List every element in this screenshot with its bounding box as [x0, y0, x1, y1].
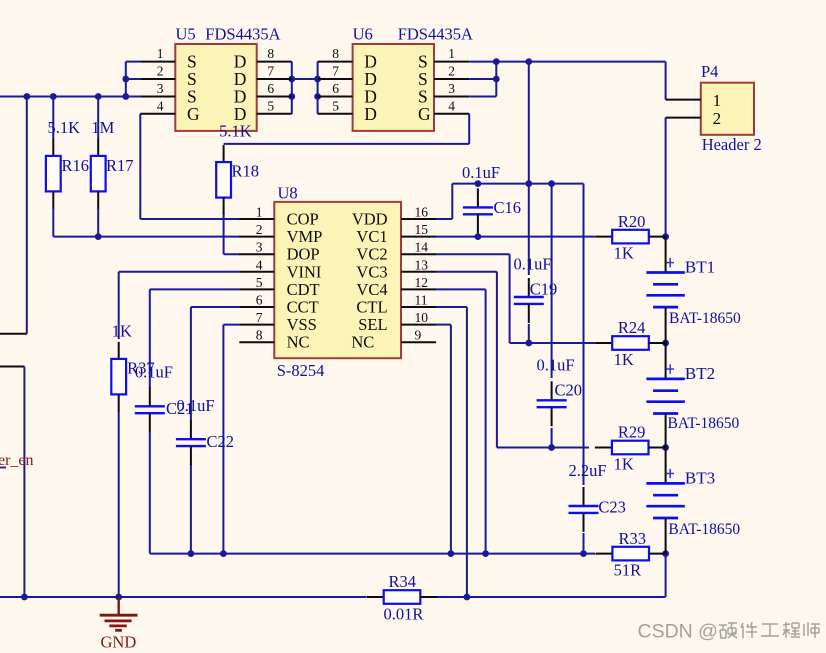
- R18 value 5.1K: [219, 122, 252, 141]
- wire bridge U5 drains to U6 drains: [292, 78, 318, 80]
- C21 designator: [166, 399, 194, 418]
- svg-text:G: G: [187, 104, 200, 124]
- svg-text:CCT: CCT: [287, 298, 319, 317]
- junction bottom rail/CTL wire: [464, 594, 471, 601]
- U6 pin 1: [418, 46, 469, 72]
- junction bottom rail/GND: [115, 594, 122, 601]
- svg-text:2: 2: [256, 222, 263, 237]
- svg-text:C20: C20: [555, 380, 583, 399]
- BT1 comment BAT-18650: [669, 310, 741, 327]
- wire U5 source bracket (pins 1-3 tie): [126, 62, 141, 97]
- resistor R20 body: [595, 230, 666, 244]
- svg-text:BAT-18650: BAT-18650: [668, 415, 740, 432]
- wire R17 bottom down to VMP row: [97, 208, 99, 237]
- svg-text:1K: 1K: [112, 322, 132, 341]
- svg-text:FDS4435A: FDS4435A: [398, 25, 473, 44]
- R24 designator: [618, 318, 646, 337]
- wire U8 pin5 CDT to C21: [150, 289, 240, 388]
- resistor R29 body: [595, 441, 666, 455]
- wire top-left bus net S1 (pack+ to U5 sources): [0, 96, 140, 98]
- U8 pin 14 VC2: [356, 240, 436, 264]
- wire U5 gate to U8 pin1 COP: [140, 114, 240, 219]
- svg-text:R33: R33: [619, 529, 647, 548]
- junction R24 right/BT2+ column: [662, 340, 669, 347]
- U8 comment S-8254: [277, 361, 325, 380]
- U8 pin 4 VINI: [239, 257, 321, 281]
- U5 designator: [176, 25, 196, 44]
- resistor R17 body: [91, 139, 106, 209]
- U8 pin 2 VMP: [239, 222, 322, 246]
- connector P4 Header 2 body: [701, 83, 754, 135]
- U5 pin 7: [234, 64, 292, 90]
- junction U6 source bracket pin2: [493, 76, 500, 83]
- svg-text:U5: U5: [176, 25, 196, 44]
- junction VC1 row/C16 bottom: [475, 233, 482, 240]
- junction rail/C20 column: [548, 180, 555, 187]
- U5 pin 4: [140, 98, 200, 124]
- svg-text:G: G: [418, 104, 431, 124]
- U8 designator: [278, 184, 298, 203]
- svg-text:VSS: VSS: [287, 315, 317, 334]
- svg-text:7: 7: [267, 64, 274, 79]
- junction U5 pin2 bracket: [122, 76, 129, 83]
- svg-text:CSDN @: CSDN @: [638, 621, 718, 643]
- C22 designator: [207, 432, 235, 451]
- svg-text:VC1: VC1: [356, 227, 387, 246]
- P4 comment Header 2: [702, 135, 762, 154]
- svg-text:BAT-18650: BAT-18650: [669, 310, 741, 327]
- capacitor C23 body: [569, 487, 599, 532]
- P4 pin 1: [666, 91, 722, 110]
- U8 pin 12 VC4: [356, 275, 436, 299]
- svg-text:10: 10: [415, 310, 429, 325]
- svg-text:BT3: BT3: [685, 468, 715, 487]
- svg-text:P4: P4: [701, 62, 718, 81]
- BT3 comment BAT-18650: [668, 521, 740, 538]
- svg-text:6: 6: [332, 81, 339, 96]
- svg-text:FDS4435A: FDS4435A: [205, 25, 280, 44]
- GND label: [101, 633, 137, 652]
- svg-text:1: 1: [448, 46, 455, 61]
- svg-text:0.1uF: 0.1uF: [514, 255, 552, 274]
- R29 value 1K: [614, 455, 634, 474]
- svg-text:1: 1: [713, 91, 722, 110]
- svg-text:1K: 1K: [614, 455, 634, 474]
- watermark glyph shi (teacher): [804, 622, 820, 638]
- svg-text:11: 11: [415, 293, 428, 308]
- svg-text:BAT-18650: BAT-18650: [668, 521, 740, 538]
- R37 value 1K: [112, 322, 132, 341]
- svg-text:6: 6: [267, 81, 274, 96]
- wire C23 column (rail to R33 row): [583, 184, 585, 554]
- C16 designator: [494, 198, 522, 217]
- R16 designator: [62, 156, 90, 175]
- svg-text:SEL: SEL: [358, 315, 387, 334]
- wire U8 pin11 CTL down to bottom rail: [436, 307, 467, 597]
- svg-text:DOP: DOP: [287, 245, 320, 264]
- junction bus/left-vertical: [23, 93, 30, 100]
- svg-text:C19: C19: [530, 280, 558, 299]
- svg-text:7: 7: [332, 64, 339, 79]
- wire U8 pin12 VC4 down to R33 row: [436, 289, 486, 553]
- svg-text:2: 2: [448, 64, 455, 79]
- wire bottom ground rail: [0, 596, 666, 598]
- capacitor C22 body: [176, 420, 206, 465]
- U5 pin 2: [140, 64, 196, 90]
- R24 value 1K: [614, 350, 634, 369]
- wire U8 pin15 VC1 to R20 / battery BT1+: [436, 236, 595, 238]
- wire R33 row (VC4/pack- sense): [150, 553, 595, 555]
- resistor R33 body: [595, 547, 666, 561]
- U8 pin 1 COP: [239, 205, 318, 229]
- svg-text:R18: R18: [232, 162, 260, 181]
- svg-text:8: 8: [332, 46, 339, 61]
- C23 value 2.2uF: [569, 461, 607, 480]
- svg-text:1M: 1M: [91, 118, 114, 137]
- svg-text:GND: GND: [101, 633, 137, 652]
- svg-text:CTL: CTL: [356, 298, 387, 317]
- U5 pin 3: [140, 81, 196, 107]
- R17 value 1M: [91, 118, 114, 137]
- wire C22 bottom to R33 row: [190, 464, 192, 554]
- capacitor C19 body: [514, 278, 544, 323]
- C20 designator: [555, 380, 583, 399]
- svg-text:1: 1: [157, 46, 164, 61]
- U6 pin 4: [418, 98, 469, 124]
- svg-text:U8: U8: [278, 184, 298, 203]
- wire U5 drain bracket (pins 5-8 tie): [291, 62, 293, 114]
- junction U6 pin7 bracket: [314, 76, 321, 83]
- wire R37 bottom to bottom rail: [118, 411, 120, 597]
- resistor R34 body: [367, 590, 438, 604]
- U6 pin 2: [418, 64, 469, 90]
- svg-text:7: 7: [256, 310, 263, 325]
- junction U6 source row/bracket top: [493, 58, 500, 65]
- svg-text:5.1K: 5.1K: [219, 122, 252, 141]
- wire U6 gate to R18 top: [224, 114, 470, 144]
- junction R33 right/BT3- column: [662, 550, 669, 557]
- svg-text:0.01R: 0.01R: [384, 605, 424, 624]
- mosfet U6 FDS4435A body: [353, 44, 434, 131]
- junction U6 pin6 bracket: [314, 93, 321, 100]
- svg-text:NC: NC: [287, 333, 310, 352]
- svg-text:5: 5: [332, 98, 339, 113]
- svg-text:12: 12: [415, 275, 429, 290]
- junction rail/C16: [475, 180, 482, 187]
- junction bus/R17: [95, 93, 102, 100]
- wire decoupling rail 0.1uF: [452, 183, 583, 185]
- svg-text:9: 9: [415, 328, 422, 343]
- U6 designator: [353, 25, 373, 44]
- svg-text:S-8254: S-8254: [277, 361, 325, 380]
- svg-text:2: 2: [157, 64, 164, 79]
- watermark glyph jian (piece): [741, 622, 757, 638]
- svg-text:16: 16: [415, 205, 429, 220]
- junction R33 row/VSS: [220, 550, 227, 557]
- U8 pin 13 VC3: [356, 257, 436, 281]
- wire BT3- down to bottom rail corner: [665, 554, 667, 597]
- U6 comment FDS4435A: [398, 25, 473, 44]
- watermark CSDN: [638, 621, 718, 643]
- svg-text:COP: COP: [287, 210, 319, 229]
- svg-text:R24: R24: [618, 318, 646, 337]
- junction R20 right/BT1+ column: [662, 233, 669, 240]
- R34 designator: [389, 572, 417, 591]
- svg-text:VMP: VMP: [287, 227, 323, 246]
- svg-text:8: 8: [267, 46, 274, 61]
- svg-text:R20: R20: [618, 212, 646, 231]
- U8 pin 9 NC: [351, 328, 436, 352]
- wire C21 bottom to R33 row: [149, 432, 151, 554]
- ic U8 S-8254 body: [274, 202, 401, 358]
- P4 pin 2: [666, 109, 722, 128]
- watermark glyph gong (work): [761, 624, 779, 636]
- wire bus down to R16 top: [52, 97, 54, 140]
- wire U6 source bracket: [469, 62, 496, 97]
- U8 pin 11 CTL: [356, 293, 436, 317]
- BT3 designator: [685, 468, 715, 487]
- junction bus/U5 source bracket: [122, 93, 129, 100]
- R33 designator: [619, 529, 647, 548]
- svg-text:15: 15: [415, 222, 429, 237]
- battery BT3 body: [646, 448, 684, 554]
- junction R33 row/C22: [188, 550, 195, 557]
- U6 pin 8: [318, 46, 377, 72]
- svg-text:BT2: BT2: [685, 364, 715, 383]
- svg-text:6: 6: [256, 293, 263, 308]
- svg-text:1K: 1K: [614, 350, 634, 369]
- R29 designator: [618, 423, 646, 442]
- C22 value 0.1uF: [177, 396, 215, 415]
- svg-text:CDT: CDT: [287, 280, 320, 299]
- R18 designator: [232, 162, 260, 181]
- wire U8 pin13 VC3 to R29 row: [436, 272, 589, 448]
- U8 pin 16 VDD: [352, 205, 436, 229]
- wire U8 pin10 SEL down to R33 row: [436, 325, 451, 554]
- mosfet U5 FDS4435A body: [175, 44, 256, 131]
- svg-text:5.1K: 5.1K: [48, 118, 81, 137]
- svg-text:VC2: VC2: [356, 245, 387, 264]
- wire U6 source row to P4 pin 1 (pack+ out): [469, 62, 665, 100]
- svg-text:1K: 1K: [614, 244, 634, 263]
- U8 pin 6 CCT: [239, 293, 318, 317]
- C19 designator: [530, 280, 558, 299]
- junction R33 row/pin10: [448, 550, 455, 557]
- svg-text:0.1uF: 0.1uF: [177, 396, 215, 415]
- capacitor C16 body: [463, 188, 493, 233]
- svg-text:R34: R34: [389, 572, 417, 591]
- svg-text:0.1uF: 0.1uF: [537, 356, 575, 375]
- svg-text:3: 3: [256, 240, 263, 255]
- svg-text:4: 4: [448, 98, 455, 113]
- resistor R37 body: [111, 342, 126, 412]
- svg-text:3: 3: [157, 81, 164, 96]
- U6 pin 3: [418, 81, 469, 107]
- svg-text:C16: C16: [494, 198, 522, 217]
- resistor R24 body: [595, 336, 666, 350]
- C20 value 0.1uF: [537, 356, 575, 375]
- junction R17 bottom: [95, 233, 102, 240]
- svg-text:VC4: VC4: [356, 280, 387, 299]
- BT2 comment BAT-18650: [668, 415, 740, 432]
- svg-text:C23: C23: [598, 497, 626, 516]
- wire U8 pin7 VSS down to R33 row: [223, 325, 239, 554]
- svg-text:R17: R17: [106, 156, 134, 175]
- svg-text:NC: NC: [351, 333, 374, 352]
- R37 designator: [127, 359, 155, 378]
- wire C20 column (rail to VC3 row): [551, 184, 553, 448]
- wire left vertical from bus down to off-page pin: [0, 97, 27, 334]
- junction bottom rail/left off-page wire: [21, 594, 28, 601]
- P4 designator: [701, 62, 718, 81]
- junction rail/C19 column: [525, 180, 532, 187]
- junction VC2 row/C19 bottom: [525, 340, 532, 347]
- U5 pin 1: [140, 46, 196, 72]
- wire off-page pin to bottom rail (left): [0, 367, 24, 598]
- svg-text:VINI: VINI: [287, 262, 322, 281]
- R20 designator: [618, 212, 646, 231]
- junction VC3 row/C20 bottom: [548, 444, 555, 451]
- svg-text:R16: R16: [62, 156, 90, 175]
- BT2 designator: [685, 364, 715, 383]
- svg-text:51R: 51R: [614, 561, 642, 580]
- U6 pin 7: [318, 64, 377, 90]
- battery BT1 body: [646, 237, 684, 343]
- wire U8 pin4 VINI down to R37: [119, 272, 240, 339]
- watermark glyph cheng (course): [783, 622, 800, 638]
- svg-text:4: 4: [157, 98, 164, 113]
- wire R18 bottom to U8 pin3 DOP: [224, 213, 240, 254]
- svg-text:4: 4: [256, 257, 263, 272]
- svg-text:2.2uF: 2.2uF: [569, 461, 607, 480]
- svg-text:BT1: BT1: [685, 258, 715, 277]
- svg-text:U6: U6: [353, 25, 373, 44]
- svg-text:R29: R29: [618, 423, 646, 442]
- U8 pin 7 VSS: [239, 310, 317, 334]
- U5 pin 5: [234, 98, 292, 124]
- svg-text:C22: C22: [207, 432, 235, 451]
- net label er_en (Power_en, clipped): [0, 452, 34, 469]
- resistor R16 body: [46, 139, 61, 209]
- junction U5 pin7 bracket: [288, 76, 295, 83]
- svg-text:2: 2: [713, 109, 722, 128]
- junction R33 row/C23: [580, 550, 587, 557]
- junction top row / C19 column: [525, 58, 532, 65]
- U6 pin 6: [318, 81, 377, 107]
- ground symbol GND: [100, 597, 138, 630]
- C21 value 0.1uF: [135, 362, 173, 381]
- wire U8 pin14 VC2 to R24 row: [436, 254, 595, 343]
- R16 value 5.1K: [48, 118, 81, 137]
- wire U8 pin6 CCT to C22: [191, 307, 239, 421]
- BT1 designator: [685, 258, 715, 277]
- U8 pin 5 CDT: [239, 275, 319, 299]
- capacitor C21 body: [135, 387, 165, 432]
- wire P4 pin2 down to BT1+ node: [665, 118, 667, 237]
- R17 designator: [106, 156, 134, 175]
- junction bus/R16: [50, 93, 57, 100]
- junction R29 right/BT3+ column: [662, 444, 669, 451]
- U8 pin 3 DOP: [239, 240, 319, 264]
- svg-text:5: 5: [267, 98, 274, 113]
- U6 pin 5: [318, 98, 377, 124]
- U5 pin 6: [234, 81, 292, 107]
- svg-text:13: 13: [415, 257, 429, 272]
- wire C19 column (top bus to VC2 row): [528, 62, 530, 343]
- svg-text:D: D: [364, 104, 377, 124]
- svg-text:3: 3: [448, 81, 455, 96]
- svg-text:8: 8: [256, 328, 263, 343]
- C16 value 0.1uF: [462, 163, 500, 182]
- battery BT2 body: [646, 343, 684, 448]
- svg-text:Header 2: Header 2: [702, 135, 762, 154]
- svg-text:er_en: er_en: [0, 452, 34, 469]
- R34 value 0.01R: [384, 605, 424, 624]
- wire bus down to R17 top: [97, 97, 99, 140]
- svg-text:VDD: VDD: [352, 210, 388, 229]
- C23 designator: [598, 497, 626, 516]
- svg-text:5: 5: [256, 275, 263, 290]
- wire U6 drain bracket (pins 5-8 tie): [317, 62, 319, 114]
- resistor R18 body: [216, 145, 231, 215]
- wire R16/R17 bottom to U8 pin2 VMP: [53, 208, 240, 237]
- capacitor C20 body: [537, 381, 567, 426]
- junction U5 pin6 bracket: [288, 93, 295, 100]
- svg-text:0.1uF: 0.1uF: [462, 163, 500, 182]
- svg-text:14: 14: [415, 240, 429, 255]
- U8 pin 8 NC: [239, 328, 309, 352]
- R33 value 51R: [614, 561, 642, 580]
- U5 comment FDS4435A: [205, 25, 280, 44]
- svg-text:0.1uF: 0.1uF: [135, 362, 173, 381]
- wire U8 pin16 VDD up to decoupling rail: [436, 184, 452, 219]
- R20 value 1K: [614, 244, 634, 263]
- U8 pin 10 SEL: [358, 310, 436, 334]
- svg-text:1: 1: [256, 205, 263, 220]
- U5 pin 8: [234, 46, 292, 72]
- junction R33 row/pin12: [482, 550, 489, 557]
- svg-text:VC3: VC3: [356, 262, 387, 281]
- U8 pin 15 VC1: [356, 222, 436, 246]
- C19 value 0.1uF: [514, 255, 552, 274]
- watermark glyph ying (hard): [719, 623, 737, 638]
